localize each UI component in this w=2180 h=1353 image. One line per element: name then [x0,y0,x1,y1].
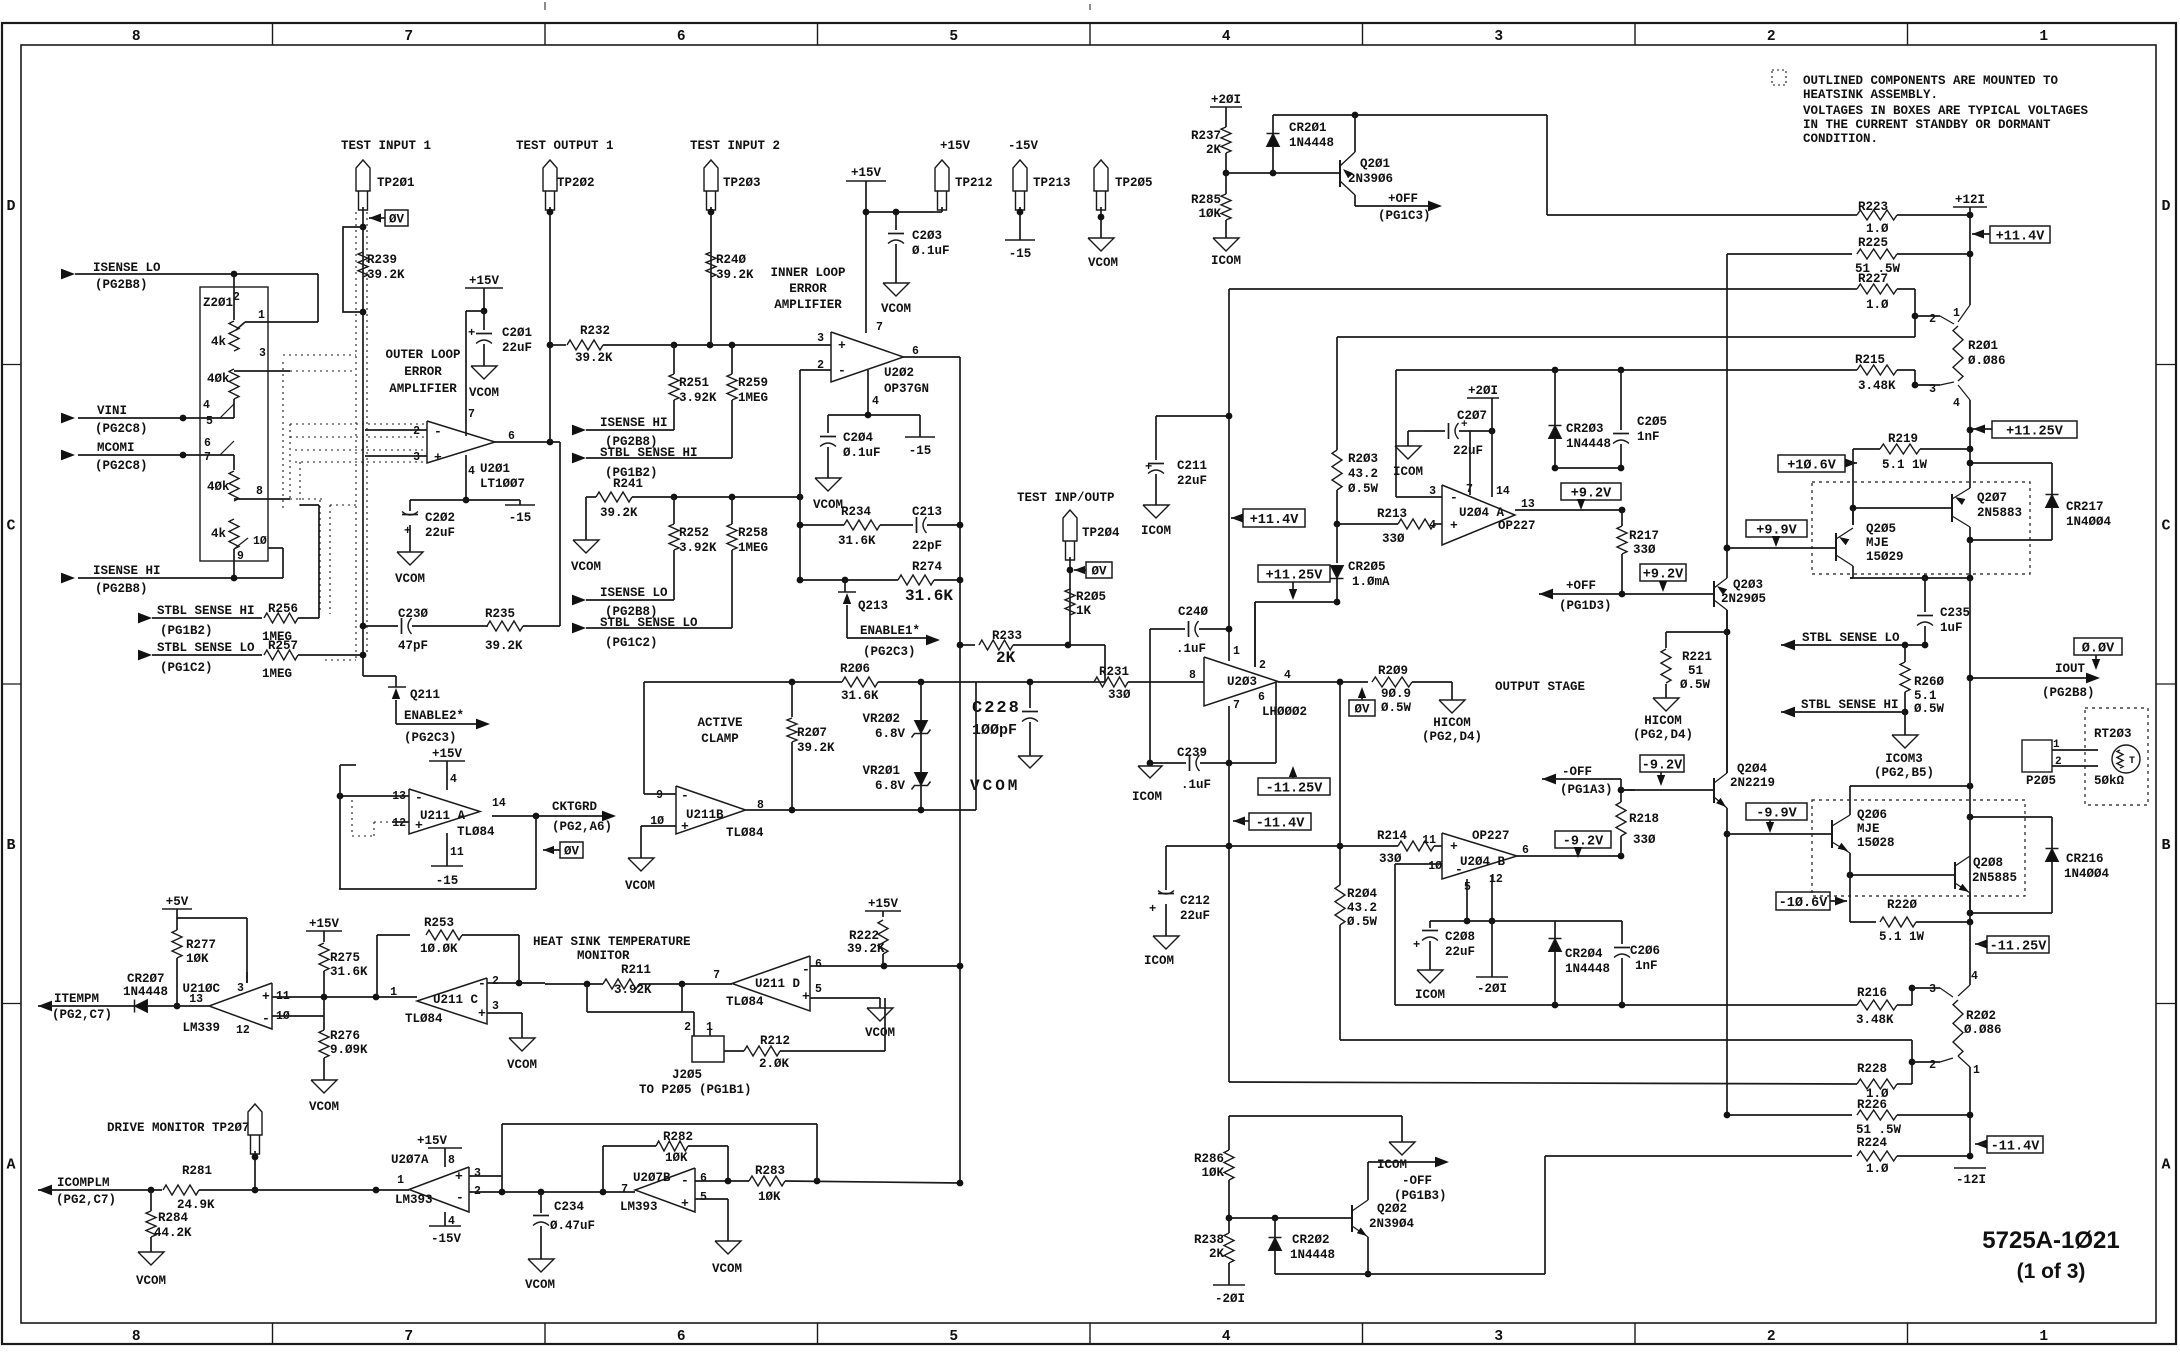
svg-text:R238: R238 [1194,1233,1224,1247]
svg-text:TP2Ø1: TP2Ø1 [377,176,415,190]
svg-text:3: 3 [474,1167,481,1180]
svg-text:-: - [434,424,442,439]
svg-text:C2Ø1: C2Ø1 [502,326,532,340]
svg-text:(PG1C2): (PG1C2) [605,636,658,650]
svg-text:9.Ø9K: 9.Ø9K [330,1043,368,1057]
svg-text:5.1 1W: 5.1 1W [1882,458,1928,472]
svg-text:2: 2 [413,425,420,438]
svg-text:HICOM: HICOM [1433,716,1471,730]
svg-text:VOLTAGES IN BOXES ARE TYPICAL: VOLTAGES IN BOXES ARE TYPICAL VOLTAGES [1803,104,2089,118]
svg-text:-15V: -15V [1008,139,1039,153]
svg-text:2: 2 [492,975,499,988]
svg-text:6: 6 [204,437,211,450]
svg-text:A: A [6,1156,15,1173]
svg-text:R218: R218 [1629,812,1659,826]
svg-text:B: B [6,837,15,854]
svg-text:4: 4 [1971,970,1978,983]
svg-text:3: 3 [1429,485,1436,498]
svg-text:P2Ø5: P2Ø5 [2026,774,2056,788]
svg-text:+11.4V: +11.4V [1250,513,1300,528]
svg-text:5725A-1Ø21: 5725A-1Ø21 [1982,1227,2119,1254]
svg-text:(PG2,B5): (PG2,B5) [1874,766,1934,780]
svg-text:3: 3 [413,451,420,464]
svg-text:4: 4 [1222,1329,1231,1345]
svg-text:1ØK: 1ØK [1201,1166,1224,1180]
svg-text:R2Ø2: R2Ø2 [1966,1009,1996,1023]
svg-text:RT2Ø3: RT2Ø3 [2094,727,2132,741]
svg-text:R2Ø6: R2Ø6 [840,662,870,676]
svg-text:R2Ø5: R2Ø5 [1076,590,1106,604]
svg-text:1Ø: 1Ø [253,535,267,548]
svg-text:-1Ø.6V: -1Ø.6V [1779,896,1829,911]
svg-text:MCOMI: MCOMI [97,441,135,455]
svg-text:D: D [6,198,15,215]
svg-text:-: - [456,1190,464,1205]
svg-text:STBL SENSE HI: STBL SENSE HI [1801,698,1899,712]
svg-text:Ø.5W: Ø.5W [1680,678,1711,692]
svg-text:DRIVE MONITOR TP2Ø7: DRIVE MONITOR TP2Ø7 [107,1121,250,1135]
svg-text:ICOM: ICOM [1415,988,1445,1002]
svg-text:8: 8 [256,485,263,498]
svg-text:R281: R281 [182,1164,212,1178]
svg-text:R227: R227 [1858,272,1888,286]
svg-text:+11.25V: +11.25V [1266,568,1324,583]
svg-text:R213: R213 [1377,507,1407,521]
svg-text:TLØ84: TLØ84 [457,825,495,839]
svg-text:R284: R284 [158,1211,189,1225]
svg-text:1: 1 [397,1174,404,1187]
svg-text:2N5883: 2N5883 [1977,506,2022,520]
svg-text:2.ØK: 2.ØK [759,1057,790,1071]
svg-text:VR2Ø2: VR2Ø2 [862,712,900,726]
svg-text:14: 14 [492,797,506,810]
svg-text:C2Ø7: C2Ø7 [1457,409,1487,423]
svg-text:ICOM3: ICOM3 [1885,752,1923,766]
svg-text:1MEG: 1MEG [738,541,768,555]
svg-text:1.ØmA: 1.ØmA [1352,575,1390,589]
svg-text:1Ø: 1Ø [1428,860,1442,873]
svg-text:1ØK: 1ØK [186,952,209,966]
svg-text:VCOM: VCOM [1088,256,1118,270]
svg-text:ØV: ØV [1091,565,1107,579]
svg-text:Q2Ø1: Q2Ø1 [1360,157,1390,171]
svg-text:+: + [681,1196,689,1211]
svg-text:R283: R283 [755,1164,785,1178]
svg-text:39.2K: 39.2K [367,268,405,282]
svg-text:A: A [2161,1156,2170,1173]
svg-text:VCOM: VCOM [525,1278,555,1292]
svg-text:39.2K: 39.2K [575,351,613,365]
svg-text:J2Ø5: J2Ø5 [672,1068,702,1082]
svg-text:ØV: ØV [564,845,580,859]
svg-text:+: + [802,989,810,1004]
svg-text:R252: R252 [679,526,709,540]
svg-text:R226: R226 [1857,1098,1887,1112]
svg-text:+15V: +15V [417,1134,448,1148]
svg-text:R211: R211 [621,963,651,977]
svg-text:5: 5 [700,1191,707,1204]
svg-text:-11.4V: -11.4V [1256,816,1306,831]
svg-text:4: 4 [1429,519,1436,532]
svg-text:1.Ø: 1.Ø [1866,298,1889,312]
svg-text:6: 6 [508,430,515,443]
svg-text:INNER LOOP: INNER LOOP [770,266,845,280]
svg-text:CR217: CR217 [2066,500,2104,514]
svg-text:+2ØI: +2ØI [1468,384,1498,398]
svg-text:9: 9 [237,550,244,563]
svg-text:6.8V: 6.8V [875,779,906,793]
svg-text:C235: C235 [1940,606,1970,620]
svg-text:4: 4 [1284,669,1291,682]
svg-text:-OFF: -OFF [1402,1174,1432,1188]
svg-text:ICOM: ICOM [1144,954,1174,968]
svg-text:-15: -15 [909,444,932,458]
svg-text:OP227: OP227 [1472,829,1510,843]
svg-text:C23Ø: C23Ø [398,607,429,621]
svg-text:1nF: 1nF [1637,430,1660,444]
svg-text:CR2Ø2: CR2Ø2 [1292,1233,1330,1247]
svg-text:1ØK: 1ØK [758,1190,781,1204]
svg-text:CR2Ø7: CR2Ø7 [127,972,165,986]
svg-text:2K: 2K [996,649,1016,667]
svg-text:ICOM: ICOM [1377,1158,1407,1172]
svg-text:22pF: 22pF [912,539,942,553]
svg-text:1: 1 [390,986,397,999]
svg-text:VCOM: VCOM [571,560,601,574]
svg-text:R223: R223 [1858,200,1888,214]
svg-text:7: 7 [1233,699,1240,712]
svg-text:Ø.1uF: Ø.1uF [843,446,881,460]
svg-text:VCOM: VCOM [881,302,911,316]
svg-text:TP213: TP213 [1033,176,1071,190]
svg-text:HICOM: HICOM [1644,714,1682,728]
svg-text:-: - [478,976,486,991]
svg-text:TEST INP/OUTP: TEST INP/OUTP [1017,491,1115,505]
svg-text:33Ø: 33Ø [1382,532,1405,546]
svg-text:6: 6 [677,1329,686,1345]
svg-text:1uF: 1uF [1940,621,1963,635]
svg-text:STBL SENSE LO: STBL SENSE LO [157,641,255,655]
svg-text:-15: -15 [1009,247,1032,261]
svg-text:(PG2C8): (PG2C8) [95,422,148,436]
svg-text:OP37GN: OP37GN [884,382,929,396]
svg-text:R237: R237 [1191,129,1221,143]
svg-text:+1Ø.6V: +1Ø.6V [1787,458,1837,473]
svg-text:R256: R256 [268,602,298,616]
svg-text:ITEMPM: ITEMPM [54,992,99,1006]
svg-text:R234: R234 [841,505,872,519]
svg-text:22uF: 22uF [502,341,532,355]
svg-text:1.Ø: 1.Ø [1866,1162,1889,1176]
svg-text:C2Ø3: C2Ø3 [912,229,942,243]
svg-text:-9.2V: -9.2V [1642,758,1683,773]
svg-text:R231: R231 [1099,665,1129,679]
svg-text:T: T [2129,756,2135,767]
svg-text:1N4448: 1N4448 [123,985,168,999]
svg-text:6.8V: 6.8V [875,727,906,741]
svg-text:6: 6 [912,345,919,358]
svg-text:+: + [262,989,270,1004]
svg-text:R232: R232 [580,324,610,338]
svg-text:3: 3 [1494,29,1503,45]
svg-text:3.92K: 3.92K [679,541,717,555]
svg-text:B: B [2161,837,2170,854]
svg-text:+: + [478,1006,486,1021]
svg-text:(PG2,D4): (PG2,D4) [1422,730,1482,744]
svg-text:43.2: 43.2 [1347,901,1377,915]
svg-text:7: 7 [876,321,883,334]
svg-text:U2Ø4 B: U2Ø4 B [1460,855,1506,869]
svg-text:U2Ø1: U2Ø1 [480,462,510,476]
svg-text:TEST OUTPUT 1: TEST OUTPUT 1 [516,139,614,153]
svg-text:24.9K: 24.9K [177,1198,215,1212]
svg-text:-: - [415,790,423,805]
svg-text:+: + [838,338,846,353]
svg-text:TP2Ø4: TP2Ø4 [1082,526,1120,540]
svg-text:-15V: -15V [431,1232,462,1246]
svg-text:MJE: MJE [1857,822,1880,836]
svg-text:-: - [838,363,846,378]
svg-text:9: 9 [656,789,663,802]
svg-text:CLAMP: CLAMP [701,732,739,746]
svg-text:+12I: +12I [1955,193,1985,207]
svg-text:VCOM: VCOM [625,879,655,893]
svg-text:R216: R216 [1857,986,1887,1000]
svg-text:-9.9V: -9.9V [1756,806,1797,821]
svg-text:1.Ø: 1.Ø [1866,222,1889,236]
svg-text:U211 C: U211 C [433,993,479,1007]
svg-text:2N5885: 2N5885 [1972,871,2017,885]
svg-text:Ø.5W: Ø.5W [1348,482,1379,496]
svg-text:VCOM: VCOM [136,1274,166,1288]
svg-text:4k: 4k [211,527,227,541]
svg-text:+: + [1413,938,1420,952]
svg-text:R228: R228 [1857,1062,1887,1076]
svg-text:MJE: MJE [1866,536,1889,550]
svg-text:VCOM: VCOM [395,572,425,586]
svg-text:Q2Ø3: Q2Ø3 [1733,578,1763,592]
svg-text:U2Ø7B: U2Ø7B [633,1171,671,1185]
svg-text:R221: R221 [1682,650,1712,664]
svg-text:1Ø.ØK: 1Ø.ØK [420,942,458,956]
svg-text:6: 6 [700,1172,707,1185]
svg-text:4k: 4k [211,335,227,349]
svg-text:R275: R275 [330,951,360,965]
svg-text:7: 7 [621,1183,628,1196]
svg-text:1: 1 [2039,29,2048,45]
svg-text:ENABLE1*: ENABLE1* [860,624,920,638]
svg-text:CR2Ø4: CR2Ø4 [1565,947,1603,961]
svg-text:VCOM: VCOM [813,498,843,512]
svg-text:1: 1 [1953,307,1960,320]
svg-text:R257: R257 [268,639,298,653]
svg-text:Ø.ØV: Ø.ØV [2082,641,2115,656]
svg-text:7: 7 [204,451,211,464]
svg-text:R219: R219 [1888,432,1918,446]
svg-text:R2Ø3: R2Ø3 [1348,452,1378,466]
svg-text:9Ø.9: 9Ø.9 [1381,687,1411,701]
svg-text:(PG2C3): (PG2C3) [863,645,916,659]
svg-text:U2Ø4 A: U2Ø4 A [1459,506,1505,520]
svg-text:51 .5W: 51 .5W [1856,1123,1902,1137]
svg-text:U211B: U211B [686,808,724,822]
svg-text:1MEG: 1MEG [738,391,768,405]
svg-text:22uF: 22uF [1177,474,1207,488]
svg-text:12: 12 [236,1024,250,1037]
svg-text:+15V: +15V [432,747,463,761]
svg-text:-: - [1450,490,1458,505]
svg-text:Q211: Q211 [410,688,440,702]
svg-text:(PG2C8): (PG2C8) [95,459,148,473]
svg-text:R2Ø4: R2Ø4 [1347,887,1378,901]
svg-text:1ØK: 1ØK [1198,207,1221,221]
svg-text:Q2Ø2: Q2Ø2 [1377,1202,1407,1216]
svg-text:3: 3 [259,347,266,360]
svg-text:R235: R235 [485,607,515,621]
svg-text:22uF: 22uF [1453,444,1483,458]
svg-text:ICOM: ICOM [1132,790,1162,804]
svg-text:1MEG: 1MEG [262,667,292,681]
svg-text:39.2K: 39.2K [485,639,523,653]
svg-text:R225: R225 [1858,236,1888,250]
svg-text:ISENSE LO: ISENSE LO [600,586,668,600]
svg-text:TLØ84: TLØ84 [726,826,764,840]
svg-text:ACTIVE: ACTIVE [697,716,742,730]
svg-text:HEAT SINK TEMPERATURE: HEAT SINK TEMPERATURE [533,935,691,949]
svg-text:(PG2,D4): (PG2,D4) [1633,728,1693,742]
svg-text:Q2Ø5: Q2Ø5 [1866,522,1896,536]
svg-text:ISENSE HI: ISENSE HI [93,564,161,578]
svg-text:11: 11 [450,846,464,859]
svg-text:C228: C228 [972,699,1021,718]
svg-text:C213: C213 [912,505,942,519]
svg-text:2: 2 [1767,29,1776,45]
svg-text:39.2K: 39.2K [847,942,885,956]
svg-text:IOUT: IOUT [2055,662,2086,676]
svg-text:+: + [1450,518,1458,533]
svg-text:CKTGRD: CKTGRD [552,800,598,814]
svg-text:ØV: ØV [1354,703,1370,717]
svg-text:8: 8 [1189,669,1196,682]
svg-text:22uF: 22uF [1445,945,1475,959]
svg-text:AMPLIFIER: AMPLIFIER [389,382,457,396]
svg-text:U211 D: U211 D [755,977,801,991]
svg-text:U211 A: U211 A [420,809,466,823]
svg-text:VCOM: VCOM [865,1026,895,1040]
svg-text:39.2K: 39.2K [797,741,835,755]
svg-text:C234: C234 [554,1200,585,1214]
svg-text:1N4ØØ4: 1N4ØØ4 [2066,515,2112,529]
svg-text:TP2Ø5: TP2Ø5 [1115,176,1153,190]
svg-text:TP2Ø3: TP2Ø3 [723,176,761,190]
svg-text:Ø.Ø86: Ø.Ø86 [1968,354,2006,368]
svg-text:-15: -15 [509,511,532,525]
svg-text:R277: R277 [186,938,216,952]
svg-text:-OFF: -OFF [1562,765,1592,779]
svg-text:31.6K: 31.6K [905,587,953,605]
svg-text:-11.25V: -11.25V [1990,939,2048,954]
svg-text:(PG2B8): (PG2B8) [95,582,148,596]
svg-text:ISENSE LO: ISENSE LO [93,261,161,275]
svg-text:C2Ø5: C2Ø5 [1637,415,1667,429]
svg-text:4: 4 [468,465,475,478]
svg-text:+15V: +15V [309,917,340,931]
svg-text:OP227: OP227 [1498,519,1536,533]
svg-text:-: - [681,1173,689,1188]
svg-text:5.1: 5.1 [1914,689,1937,703]
svg-text:.1uF: .1uF [1181,778,1211,792]
svg-text:5ØkΩ: 5ØkΩ [2094,774,2125,788]
svg-text:43.2: 43.2 [1348,467,1378,481]
svg-text:R253: R253 [424,916,454,930]
svg-text:(PG2,A6): (PG2,A6) [552,820,612,834]
svg-text:(PG1C2): (PG1C2) [160,661,213,675]
svg-text:8: 8 [132,1329,141,1345]
svg-text:7: 7 [468,408,475,421]
svg-text:22uF: 22uF [425,526,455,540]
svg-text:Ø.5W: Ø.5W [1914,702,1945,716]
svg-text:1ØØpF: 1ØØpF [972,722,1017,739]
svg-text:HEATSINK ASSEMBLY.: HEATSINK ASSEMBLY. [1803,88,1938,102]
svg-text:+: + [468,326,475,340]
svg-text:ENABLE2*: ENABLE2* [404,709,464,723]
svg-text:3: 3 [492,1000,499,1013]
svg-text:2N39Ø6: 2N39Ø6 [1348,172,1393,186]
svg-text:U2Ø3: U2Ø3 [1227,675,1257,689]
svg-text:4: 4 [450,773,457,786]
svg-text:Q2Ø6: Q2Ø6 [1857,808,1887,822]
svg-text:+11.25V: +11.25V [2006,424,2064,439]
svg-text:STBL SENSE HI: STBL SENSE HI [157,604,255,618]
svg-text:C211: C211 [1177,459,1207,473]
svg-text:R258: R258 [738,526,768,540]
svg-text:VCOM: VCOM [469,386,499,400]
svg-text:(PG1C3): (PG1C3) [1378,209,1431,223]
svg-text:11: 11 [1422,834,1436,847]
svg-text:6: 6 [677,29,686,45]
svg-text:CR2Ø1: CR2Ø1 [1289,121,1327,135]
svg-text:1N4ØØ4: 1N4ØØ4 [2064,867,2110,881]
svg-text:6: 6 [1522,844,1529,857]
svg-text:U2Ø7A: U2Ø7A [391,1153,429,1167]
svg-text:ERROR: ERROR [789,282,827,296]
svg-text:ICOM: ICOM [1211,254,1241,268]
svg-text:+OFF: +OFF [1566,579,1596,593]
svg-text:ICOM: ICOM [1393,465,1423,479]
svg-text:39.2K: 39.2K [716,268,754,282]
svg-text:Z2Ø1: Z2Ø1 [203,296,233,310]
svg-text:Ø.5W: Ø.5W [1347,915,1378,929]
svg-text:OUTER LOOP: OUTER LOOP [385,348,460,362]
svg-text:(PG2B8): (PG2B8) [95,278,148,292]
svg-text:1N4448: 1N4448 [1566,437,1611,451]
svg-text:+15V: +15V [868,897,899,911]
svg-text:+15V: +15V [940,139,971,153]
svg-text:C2Ø2: C2Ø2 [425,511,455,525]
svg-text:12: 12 [392,817,406,830]
svg-text:13: 13 [1521,498,1535,511]
svg-text:1: 1 [2039,1329,2048,1345]
svg-text:ERROR: ERROR [404,365,442,379]
svg-text:5.1 1W: 5.1 1W [1879,930,1925,944]
svg-text:R26Ø: R26Ø [1914,675,1945,689]
svg-text:Q2Ø7: Q2Ø7 [1977,491,2007,505]
svg-text:33Ø: 33Ø [1633,543,1656,557]
svg-text:TEST INPUT 2: TEST INPUT 2 [690,139,780,153]
svg-text:R241: R241 [613,477,643,491]
svg-text:5: 5 [815,983,822,996]
svg-text:3.92K: 3.92K [679,391,717,405]
